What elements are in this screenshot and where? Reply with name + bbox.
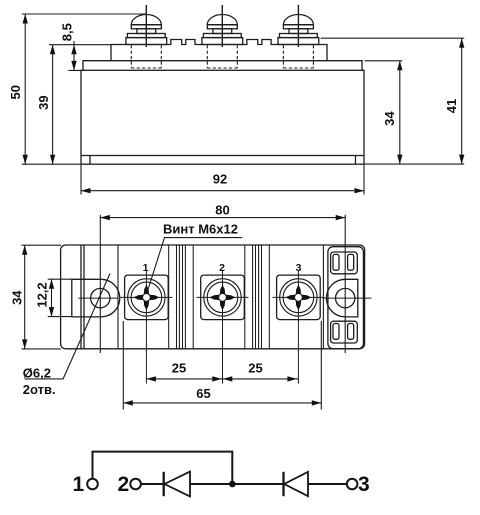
bottom slot a bbox=[333, 324, 339, 340]
terminal deck with partition bumps bbox=[111, 40, 327, 61]
screw 3 flange base bbox=[278, 38, 319, 45]
plan view dimensions bbox=[22, 215, 346, 410]
svg-text:12,2: 12,2 bbox=[35, 282, 50, 307]
diode D1 triangle bbox=[164, 472, 190, 497]
svg-text:39: 39 bbox=[36, 95, 51, 109]
screw 1 hidden boss (dashed) bbox=[131, 45, 161, 68]
base plate notch left bbox=[89, 156, 91, 165]
leader diameter bbox=[25, 274, 111, 379]
svg-text:8,5: 8,5 bbox=[59, 23, 74, 41]
svg-text:2: 2 bbox=[219, 262, 225, 274]
screw 3 head dome bbox=[283, 15, 313, 25]
svg-text:2: 2 bbox=[118, 473, 130, 496]
svg-text:25: 25 bbox=[248, 361, 262, 376]
left mounting hole bbox=[91, 288, 110, 307]
screw 2 neck bbox=[213, 29, 232, 34]
screw 2 hidden boss (dashed) bbox=[207, 45, 237, 68]
right hole h-centerline bbox=[323, 297, 372, 299]
screw 3 clamp washer bbox=[280, 34, 318, 38]
ribs between pads 1-2 bbox=[169, 245, 194, 349]
dimension 65 bbox=[123, 402, 321, 404]
diode D2 triangle bbox=[284, 472, 308, 496]
wire terminal1 to junction bbox=[93, 452, 233, 484]
left hole h-centerline bbox=[79, 297, 118, 299]
screw 1 clamp washer bbox=[127, 34, 165, 38]
screw 1 head dome bbox=[131, 15, 161, 25]
arrows plan view bbox=[22, 215, 345, 406]
dimension 39 bbox=[49, 45, 111, 165]
left mounting boss bbox=[72, 279, 120, 317]
screw 3 hidden boss (dashed) bbox=[283, 45, 313, 68]
screw 2 clamp washer bbox=[203, 34, 241, 38]
screw 1 centerline bbox=[145, 5, 147, 47]
screw 2 flange base bbox=[202, 38, 243, 45]
terminal pad 3 (plan) bbox=[272, 271, 324, 384]
svg-text:50: 50 bbox=[8, 85, 23, 99]
module body outline bbox=[81, 70, 364, 164]
screw terminal 3 (side) bbox=[278, 5, 319, 68]
arrows side view bbox=[23, 14, 465, 193]
dimension 41 bbox=[321, 38, 465, 164]
bottom slot b bbox=[348, 324, 354, 340]
screw 2 centerline bbox=[221, 5, 223, 47]
rib left of pad 1 bbox=[117, 245, 119, 349]
screw cross pad 3 bbox=[285, 285, 311, 311]
diode D1 cathode bar bbox=[163, 472, 165, 496]
module body outline (plan) bbox=[61, 245, 365, 349]
screw 2 head dome bbox=[207, 15, 237, 25]
screw pilot pad 1 bbox=[143, 294, 151, 302]
ribs between pads 2-3 bbox=[245, 245, 269, 349]
svg-text:65: 65 bbox=[196, 386, 210, 401]
wire terminal2 to D1 bbox=[141, 483, 164, 485]
rib right of pad 3 bbox=[322, 245, 324, 349]
screw 1 neck bbox=[137, 29, 156, 34]
screw 1 head brim bbox=[131, 25, 161, 29]
screw cross pad 2 bbox=[210, 285, 236, 311]
top slot b bbox=[348, 254, 354, 270]
svg-text:1: 1 bbox=[73, 473, 85, 496]
leader screw label bbox=[148, 238, 242, 290]
svg-text:3: 3 bbox=[296, 262, 302, 274]
dimension 12.2 bbox=[51, 279, 53, 316]
dimension 34 right bbox=[365, 61, 403, 164]
top slot a bbox=[333, 254, 339, 270]
dimension 80 bbox=[100, 217, 345, 219]
terminal pad 2 (plan) bbox=[197, 271, 249, 384]
svg-text:80: 80 bbox=[215, 203, 229, 218]
svg-text:34: 34 bbox=[10, 290, 25, 305]
svg-text:Ø6,2: Ø6,2 bbox=[23, 365, 51, 380]
svg-text:92: 92 bbox=[213, 172, 227, 187]
base plate top edge bbox=[81, 155, 364, 157]
screw 3 head brim bbox=[283, 25, 313, 29]
right mounting hole bbox=[336, 288, 355, 307]
svg-text:3: 3 bbox=[358, 473, 370, 496]
left flange divider bbox=[81, 245, 84, 349]
right end block bbox=[328, 247, 364, 349]
dimension 92 bbox=[81, 165, 364, 195]
screw 3 neck bbox=[289, 29, 308, 34]
right mounting boss bbox=[326, 279, 357, 317]
svg-text:2отв.: 2отв. bbox=[23, 382, 56, 397]
screw terminal 1 (side) bbox=[126, 5, 167, 68]
base plate notch right bbox=[355, 156, 357, 165]
screw pilot pad 2 bbox=[219, 294, 227, 302]
terminal pad 1 (plan) bbox=[120, 271, 172, 384]
svg-text:Винт М6х12: Винт М6х12 bbox=[163, 222, 238, 237]
screw pilot pad 3 bbox=[295, 294, 303, 302]
diode D2 cathode bar bbox=[282, 472, 284, 496]
dimension 8.5 bbox=[68, 41, 85, 70]
terminal 1 circle bbox=[87, 479, 98, 490]
wire D1 to D2 bbox=[190, 483, 284, 485]
terminal 2 circle bbox=[130, 479, 141, 490]
left hole v-centerline bbox=[99, 215, 101, 353]
svg-text:1: 1 bbox=[143, 262, 149, 274]
screw terminal 2 (side) bbox=[202, 5, 243, 68]
dimension 25 a/b bbox=[146, 378, 298, 380]
screw 3 centerline bbox=[297, 5, 299, 47]
junction node bbox=[229, 481, 236, 488]
svg-text:41: 41 bbox=[444, 99, 459, 113]
screw 2 head brim bbox=[207, 25, 237, 29]
svg-text:34: 34 bbox=[382, 111, 397, 126]
wire D2 to terminal3 bbox=[308, 483, 347, 485]
screw cross pad 1 bbox=[133, 285, 159, 311]
bottom slot group bbox=[331, 321, 358, 343]
terminal 3 circle bbox=[347, 479, 358, 490]
dimension 34 plan bbox=[24, 245, 26, 349]
dimension 50 bbox=[22, 14, 147, 164]
screw 1 flange base bbox=[126, 38, 167, 45]
right hole v-centerline bbox=[344, 215, 346, 353]
svg-text:25: 25 bbox=[172, 361, 186, 376]
top slot group bbox=[331, 252, 358, 274]
lid plate bbox=[83, 61, 362, 71]
